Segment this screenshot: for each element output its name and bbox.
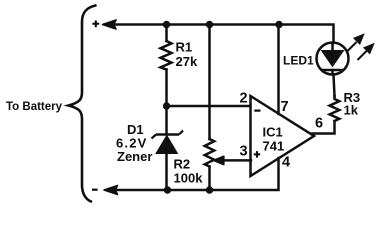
svg-text:LED1: LED1 <box>283 54 314 68</box>
wire R1 top lead <box>165 25 168 42</box>
wire output pin 6 <box>312 121 335 134</box>
junction node pin7 top <box>275 21 282 28</box>
battery brace <box>69 6 96 202</box>
wire reference node to pin 2 <box>167 105 251 108</box>
svg-text:741: 741 <box>263 139 285 154</box>
wire top rail <box>110 25 334 44</box>
svg-text:IC1: IC1 <box>263 125 283 140</box>
svg-text:6: 6 <box>315 116 323 132</box>
svg-text:2: 2 <box>240 91 248 107</box>
LED1 circle <box>317 43 349 75</box>
svg-text:1k: 1k <box>344 103 359 118</box>
LED1 internal bar <box>322 69 343 72</box>
wire zener top lead <box>165 106 168 134</box>
svg-text:3: 3 <box>240 144 248 160</box>
wire R1 bottom lead <box>165 70 168 107</box>
svg-text:7: 7 <box>281 99 289 115</box>
svg-text:27k: 27k <box>176 54 198 69</box>
resistor R1 <box>161 41 172 70</box>
junction node R2 bottom <box>206 186 213 193</box>
svg-text:4: 4 <box>282 154 290 170</box>
junction node reference <box>163 102 170 109</box>
plus terminal symbol <box>92 20 99 27</box>
wire R2 branch top lead <box>208 25 211 140</box>
zener diode D1 body <box>152 131 184 154</box>
wire LED cathode inside <box>331 70 334 75</box>
wire pin 7 to top rail <box>277 25 280 115</box>
LED1 emission arrow lower <box>358 51 367 60</box>
wire bottom rail <box>112 158 279 190</box>
arrowhead + terminal <box>103 20 117 29</box>
potentiometer R2 wiper arrow <box>214 156 224 164</box>
svg-text:R1: R1 <box>176 40 193 55</box>
svg-text:100k: 100k <box>174 170 204 185</box>
svg-text:Zener: Zener <box>117 149 152 164</box>
resistor R3 <box>330 96 340 121</box>
wire LED anode inside <box>331 43 334 51</box>
wire wiper to pin 3 <box>223 159 251 162</box>
arrowhead - terminal <box>104 186 118 195</box>
wire zener bottom lead <box>165 153 168 190</box>
junction node R2 top <box>206 21 213 28</box>
junction node zener bottom <box>164 186 171 193</box>
svg-text:6.2V: 6.2V <box>116 135 148 150</box>
junction node R1 top <box>163 21 170 28</box>
LED1 emission arrow upper <box>348 35 374 61</box>
op-amp IC1 triangle <box>251 96 315 176</box>
label op-amp plus input <box>254 151 260 158</box>
wire R3 to LED <box>334 75 335 97</box>
svg-text:To Battery: To Battery <box>6 101 63 113</box>
label op-amp minus input <box>254 110 260 112</box>
LED1 internal triangle <box>322 51 344 67</box>
minus terminal symbol <box>92 189 98 191</box>
wire R2 bottom lead <box>208 167 211 191</box>
resistor R2 <box>205 139 215 167</box>
